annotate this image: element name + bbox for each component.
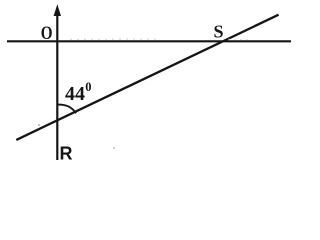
svg-text:O: O	[41, 22, 53, 43]
arrowhead of vertical ray	[54, 4, 61, 16]
wire slanted transversal through S	[16, 15, 278, 140]
scan noise above horizontal line	[70, 38, 160, 40]
svg-text:S: S	[214, 22, 224, 42]
svg-text:R: R	[60, 144, 73, 164]
wire vertical ray RO	[56, 9, 58, 160]
wire horizontal line through O and S	[7, 40, 291, 42]
angle arc at 44 degrees	[57, 105, 76, 114]
